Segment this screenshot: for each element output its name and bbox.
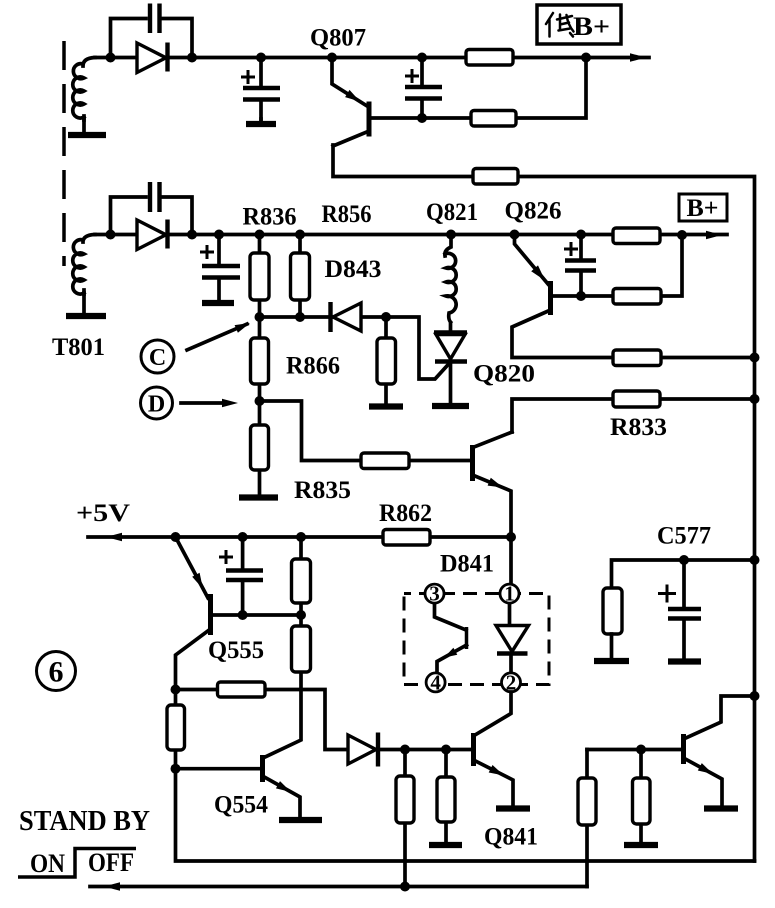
svg-text:B+: B+ xyxy=(687,195,719,222)
svg-text:Q841: Q841 xyxy=(484,824,538,851)
svg-text:C: C xyxy=(149,345,166,371)
svg-text:R836: R836 xyxy=(243,204,297,231)
svg-text:STAND BY: STAND BY xyxy=(19,806,150,837)
svg-text:Q555: Q555 xyxy=(208,637,264,664)
svg-text:R835: R835 xyxy=(294,477,351,504)
svg-text:B+: B+ xyxy=(573,12,610,41)
svg-text:D841: D841 xyxy=(440,551,494,578)
svg-text:R856: R856 xyxy=(322,201,372,228)
svg-text:Q820: Q820 xyxy=(473,361,535,388)
svg-text:3: 3 xyxy=(429,582,440,606)
svg-text:OFF: OFF xyxy=(88,848,134,877)
svg-text:Q554: Q554 xyxy=(214,792,268,819)
svg-text:Q807: Q807 xyxy=(310,25,366,52)
svg-text:+5V: +5V xyxy=(76,500,130,527)
svg-text:T801: T801 xyxy=(52,334,105,361)
svg-text:D843: D843 xyxy=(325,256,382,283)
svg-text:Q821: Q821 xyxy=(426,199,478,226)
svg-text:4: 4 xyxy=(430,670,441,694)
svg-text:6: 6 xyxy=(49,656,64,689)
svg-text:R866: R866 xyxy=(286,353,340,380)
svg-text:ON: ON xyxy=(30,849,65,878)
svg-text:R862: R862 xyxy=(379,500,432,527)
svg-text:Q826: Q826 xyxy=(505,198,562,225)
svg-text:1: 1 xyxy=(504,582,515,606)
svg-text:D: D xyxy=(148,392,165,418)
svg-text:R833: R833 xyxy=(610,414,667,441)
svg-text:C577: C577 xyxy=(657,523,711,550)
